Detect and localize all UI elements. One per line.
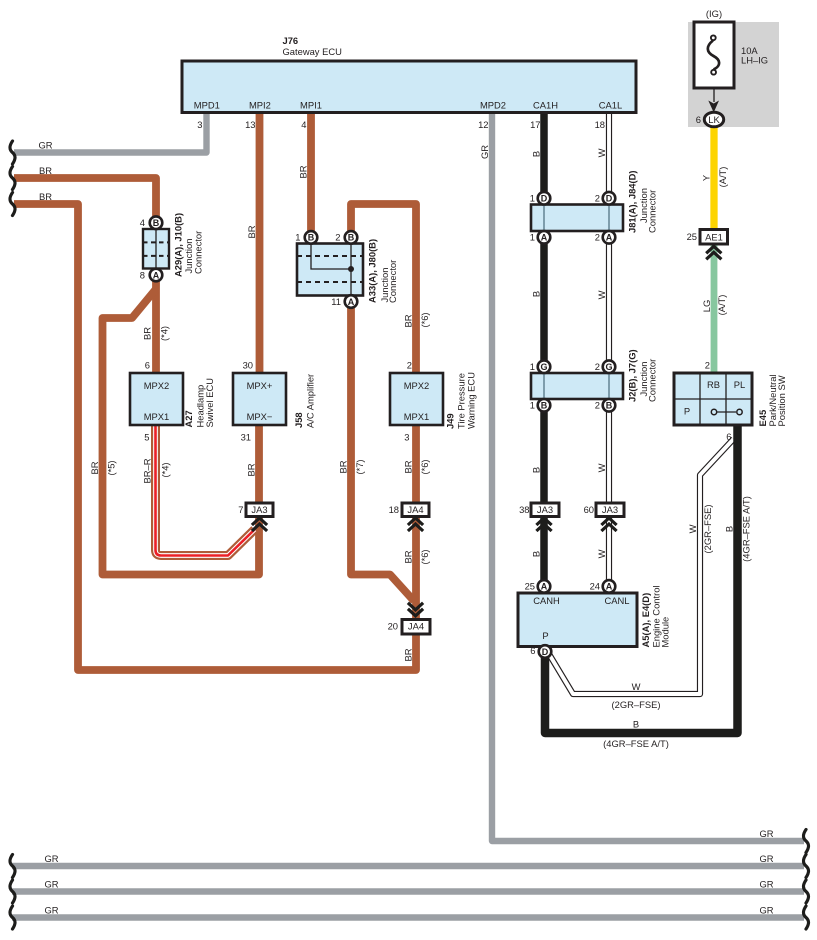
svg-text:GR: GR: [759, 853, 773, 864]
svg-text:B: B: [531, 467, 542, 473]
svg-text:BR: BR: [39, 191, 52, 202]
svg-text:AE1: AE1: [705, 232, 723, 243]
svg-text:B: B: [531, 151, 542, 157]
svg-text:CANH: CANH: [533, 595, 560, 606]
svg-text:A/C Amplifier: A/C Amplifier: [305, 374, 316, 428]
svg-text:Connector: Connector: [192, 231, 203, 274]
svg-text:GR: GR: [759, 879, 773, 890]
svg-text:A: A: [541, 233, 548, 243]
svg-text:D: D: [541, 194, 548, 204]
svg-text:BR: BR: [246, 225, 257, 238]
svg-text:3: 3: [197, 119, 202, 130]
svg-text:W: W: [596, 549, 607, 558]
svg-text:JA3: JA3: [537, 504, 553, 515]
svg-text:GR: GR: [759, 828, 773, 839]
svg-text:D: D: [542, 647, 549, 657]
svg-text:(2GR–FSE): (2GR–FSE): [612, 699, 661, 710]
svg-text:1: 1: [530, 193, 535, 204]
svg-text:PL: PL: [734, 379, 745, 390]
svg-text:G: G: [605, 362, 612, 372]
svg-text:B: B: [633, 719, 639, 730]
svg-text:CA1L: CA1L: [599, 100, 622, 111]
svg-text:60: 60: [584, 504, 594, 515]
svg-text:24: 24: [590, 581, 600, 592]
svg-text:BR: BR: [403, 460, 414, 473]
svg-text:GR: GR: [759, 905, 773, 916]
svg-text:30: 30: [243, 360, 253, 371]
svg-text:17: 17: [530, 119, 540, 130]
svg-text:BR: BR: [403, 550, 414, 563]
svg-text:J49: J49: [445, 413, 456, 429]
svg-text:38: 38: [519, 504, 529, 515]
svg-text:A33(A), J80(B): A33(A), J80(B): [367, 239, 378, 303]
svg-text:18: 18: [595, 119, 605, 130]
svg-text:2: 2: [595, 193, 600, 204]
svg-text:Connector: Connector: [647, 359, 658, 402]
svg-text:6: 6: [696, 114, 701, 125]
svg-text:Connector: Connector: [387, 260, 398, 303]
svg-text:BR: BR: [246, 463, 257, 476]
svg-text:(4GR–FSE A/T): (4GR–FSE A/T): [603, 738, 669, 749]
svg-text:Swivel ECU: Swivel ECU: [204, 378, 215, 428]
svg-text:GR: GR: [479, 145, 490, 159]
svg-text:11: 11: [331, 296, 341, 307]
svg-text:P: P: [684, 406, 690, 417]
svg-text:BR–R: BR–R: [142, 458, 153, 483]
svg-text:BR: BR: [338, 460, 349, 473]
svg-text:GR: GR: [44, 905, 58, 916]
svg-text:B: B: [724, 526, 735, 532]
svg-text:6: 6: [145, 360, 150, 371]
svg-text:A: A: [606, 233, 613, 243]
svg-text:RB: RB: [707, 379, 720, 390]
svg-text:MPX2: MPX2: [144, 380, 170, 391]
svg-text:J81(A), J84(D): J81(A), J84(D): [627, 170, 638, 233]
svg-text:A5(A), E4(D): A5(A), E4(D): [640, 593, 651, 648]
svg-text:A: A: [153, 270, 160, 280]
svg-text:25: 25: [687, 231, 697, 242]
svg-text:CA1H: CA1H: [533, 100, 558, 111]
svg-text:B: B: [541, 401, 548, 411]
svg-text:31: 31: [241, 432, 251, 443]
svg-text:P: P: [542, 630, 548, 641]
svg-text:13: 13: [245, 119, 255, 130]
svg-text:2: 2: [595, 232, 600, 243]
svg-text:8: 8: [140, 269, 145, 280]
svg-text:Module: Module: [660, 617, 671, 648]
svg-text:LH–IG: LH–IG: [741, 55, 768, 66]
svg-text:BR: BR: [298, 165, 309, 178]
svg-text:(A/T): (A/T): [716, 295, 727, 316]
svg-text:Warning ECU: Warning ECU: [466, 372, 477, 429]
svg-text:LG: LG: [701, 300, 712, 313]
svg-text:W: W: [687, 524, 698, 533]
svg-text:MPX2: MPX2: [404, 380, 430, 391]
svg-text:JA4: JA4: [408, 621, 424, 632]
svg-text:G: G: [540, 362, 547, 372]
svg-text:W: W: [632, 681, 641, 692]
svg-text:18: 18: [389, 504, 399, 515]
svg-text:(A/T): (A/T): [717, 167, 728, 188]
svg-text:1: 1: [530, 232, 535, 243]
svg-text:Connector: Connector: [647, 190, 658, 233]
svg-text:2: 2: [705, 360, 710, 371]
svg-text:25: 25: [525, 581, 535, 592]
svg-text:6: 6: [530, 645, 535, 656]
svg-text:(*5): (*5): [106, 460, 117, 475]
svg-text:B: B: [153, 218, 160, 228]
svg-text:(*4): (*4): [160, 462, 171, 477]
svg-text:BR: BR: [89, 461, 100, 474]
svg-text:(*7): (*7): [354, 459, 365, 474]
svg-text:MPX+: MPX+: [247, 380, 273, 391]
svg-text:MPD1: MPD1: [194, 100, 220, 111]
svg-text:1: 1: [530, 400, 535, 411]
svg-text:J76: J76: [283, 35, 299, 46]
svg-text:J58: J58: [293, 412, 304, 428]
svg-text:7: 7: [238, 504, 243, 515]
svg-text:(4GR–FSE A/T): (4GR–FSE A/T): [741, 496, 752, 562]
svg-text:BR: BR: [403, 314, 414, 327]
svg-text:B: B: [606, 401, 613, 411]
svg-text:(2GR–FSE): (2GR–FSE): [702, 505, 713, 554]
svg-text:J2(B), J7(G): J2(B), J7(G): [627, 349, 638, 402]
svg-text:GR: GR: [38, 140, 52, 151]
svg-text:JA3: JA3: [602, 504, 618, 515]
svg-text:4: 4: [140, 217, 145, 228]
svg-text:MPD2: MPD2: [480, 100, 506, 111]
svg-text:(*6): (*6): [419, 549, 430, 564]
svg-text:A: A: [606, 582, 613, 592]
svg-text:MPX−: MPX−: [247, 411, 273, 422]
svg-text:MPI1: MPI1: [300, 100, 322, 111]
svg-text:3: 3: [404, 432, 409, 443]
svg-text:A29(A), J10(B): A29(A), J10(B): [173, 213, 184, 277]
svg-text:2: 2: [407, 360, 412, 371]
svg-text:BR: BR: [39, 165, 52, 176]
svg-text:4: 4: [301, 119, 306, 130]
svg-text:5: 5: [144, 432, 149, 443]
svg-text:JA4: JA4: [407, 504, 423, 515]
svg-text:W: W: [596, 463, 607, 472]
svg-text:2: 2: [595, 361, 600, 372]
svg-text:(IG): (IG): [706, 8, 722, 19]
svg-text:GR: GR: [44, 879, 58, 890]
svg-text:(*4): (*4): [159, 326, 170, 341]
svg-text:MPX1: MPX1: [144, 411, 170, 422]
svg-text:2: 2: [595, 400, 600, 411]
svg-text:Y: Y: [701, 174, 712, 181]
svg-text:1: 1: [295, 232, 300, 243]
svg-text:Position SW: Position SW: [776, 375, 787, 426]
svg-text:W: W: [596, 290, 607, 299]
svg-text:CANL: CANL: [604, 595, 629, 606]
svg-text:B: B: [308, 233, 315, 243]
svg-text:GR: GR: [44, 853, 58, 864]
svg-text:LK: LK: [708, 114, 720, 125]
svg-text:B: B: [531, 551, 542, 557]
svg-text:MPI2: MPI2: [249, 100, 271, 111]
svg-text:(*6): (*6): [419, 312, 430, 327]
svg-text:B: B: [531, 291, 542, 297]
svg-text:BR: BR: [142, 327, 153, 340]
svg-text:JA3: JA3: [251, 504, 267, 515]
svg-text:MPX1: MPX1: [404, 411, 430, 422]
svg-text:B: B: [348, 233, 355, 243]
svg-text:1: 1: [530, 361, 535, 372]
svg-text:20: 20: [388, 621, 398, 632]
svg-text:(*6): (*6): [419, 459, 430, 474]
svg-text:A: A: [348, 297, 355, 307]
svg-text:2: 2: [335, 232, 340, 243]
svg-text:12: 12: [478, 119, 488, 130]
svg-text:BR: BR: [403, 648, 414, 661]
svg-text:Gateway ECU: Gateway ECU: [283, 46, 343, 57]
svg-text:W: W: [596, 148, 607, 157]
svg-text:A27: A27: [183, 410, 194, 427]
svg-text:A: A: [541, 582, 548, 592]
svg-text:D: D: [606, 194, 613, 204]
svg-text:6: 6: [726, 431, 731, 442]
